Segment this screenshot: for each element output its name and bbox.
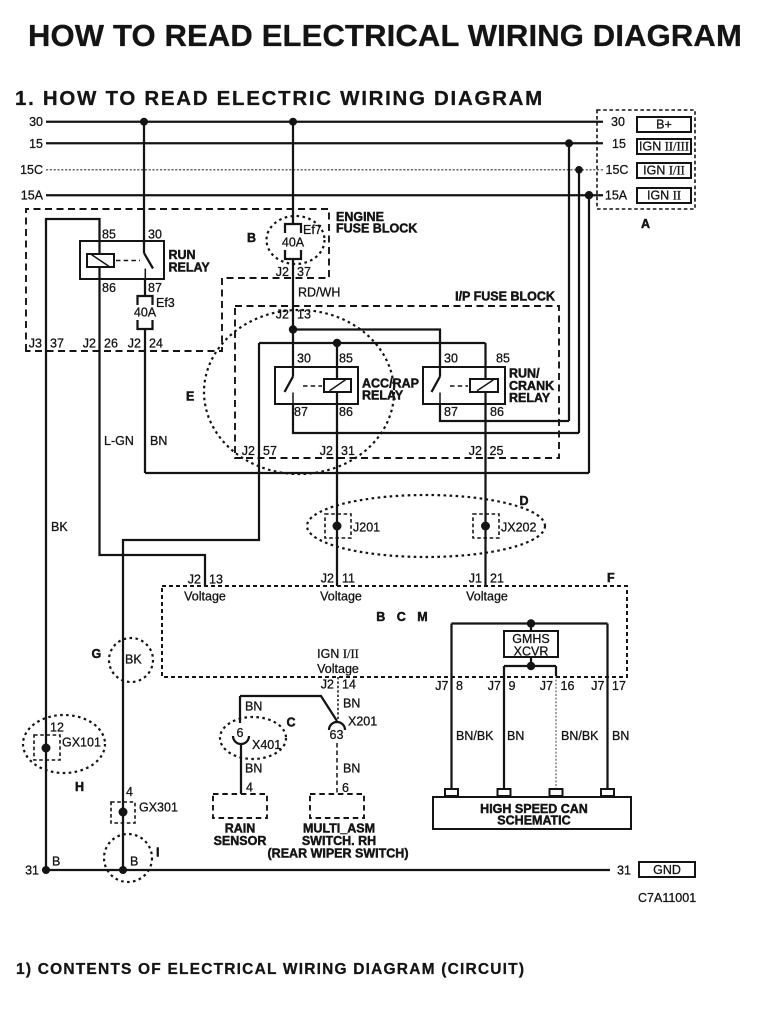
node: junction dot bus15C <box>575 166 583 174</box>
svg-text:J7: J7 <box>488 679 501 693</box>
svg-text:40A: 40A <box>282 236 305 250</box>
svg-text:13: 13 <box>297 308 311 322</box>
svg-text:G: G <box>92 647 102 661</box>
svg-text:IGN I/II: IGN I/II <box>643 164 685 178</box>
relay K2 pin87 stub <box>292 393 294 405</box>
svg-text:HOW TO READ ELECTRICAL WIRING: HOW TO READ ELECTRICAL WIRING DIAGRAM <box>28 18 742 53</box>
svg-text:IGN I/II: IGN I/II <box>317 647 359 661</box>
node: junction dot GX301 bus31 <box>119 866 127 874</box>
svg-text:26: 26 <box>104 337 118 351</box>
svg-text:J2: J2 <box>276 308 289 322</box>
svg-text:40A: 40A <box>134 306 157 320</box>
fuse Ef7 (brackets) <box>285 224 301 259</box>
relay K1 RUN RELAY box <box>80 241 164 279</box>
svg-text:BN: BN <box>507 729 524 743</box>
wire: J7|8 CAN line <box>450 624 452 790</box>
svg-text:63: 63 <box>330 728 344 742</box>
svg-text:BK: BK <box>51 520 68 534</box>
node: junction dot GMHS top <box>527 619 535 627</box>
svg-text:Voltage: Voltage <box>466 590 508 604</box>
wire: J7|17 CAN line <box>606 624 608 790</box>
svg-text:21: 21 <box>490 572 504 586</box>
svg-text:J2: J2 <box>83 337 96 351</box>
node: junction dot J2|13 branch <box>289 325 297 333</box>
svg-text:57: 57 <box>263 444 277 458</box>
ellipse D around splices <box>307 495 545 557</box>
svg-text:GND: GND <box>653 863 681 877</box>
box A dashed outline <box>597 110 695 209</box>
svg-text:X201: X201 <box>348 715 377 729</box>
svg-text:6: 6 <box>237 726 244 740</box>
circle G around BK wire <box>109 638 153 682</box>
wire: 15C vertical from bus <box>578 170 580 433</box>
svg-text:XCVR: XCVR <box>514 645 549 659</box>
engine fuse block dashed outline <box>26 209 329 351</box>
svg-text:85: 85 <box>496 352 510 366</box>
multi asm switch dashed box <box>310 794 364 818</box>
svg-text:85: 85 <box>102 228 116 242</box>
box A IGN I/II cell <box>637 163 691 178</box>
circle B around Ef7 <box>267 216 325 264</box>
svg-text:J2: J2 <box>320 444 333 458</box>
node: GX101 dot <box>42 744 51 753</box>
node: junction dot bus30 x293 <box>289 118 297 126</box>
svg-text:A: A <box>641 217 650 231</box>
svg-text:H: H <box>75 780 84 794</box>
node: junction dot bus15A <box>585 191 593 199</box>
wire: 15A vertical from bus <box>588 195 590 473</box>
wire: RUN/CRANK coil pin86 down through J2|25 and JX202 to BCM J1|21 <box>484 392 486 586</box>
relay K1 switch blade <box>144 253 153 269</box>
svg-text:BN: BN <box>245 700 262 714</box>
wire: J7|16 CAN line dotted <box>555 676 557 789</box>
svg-text:J7: J7 <box>540 679 553 693</box>
svg-text:86: 86 <box>490 405 504 419</box>
CAN connector tab 3 <box>550 789 563 796</box>
ellipse E around ACC/RAP relay <box>204 310 394 474</box>
wire: 15 vertical from bus <box>568 143 570 421</box>
svg-text:Voltage: Voltage <box>320 590 362 604</box>
node: junction dot GMHS bottom <box>527 662 535 670</box>
ground GX101 dashed square <box>34 735 60 760</box>
wire: RUN relay pin87 to fuse Ef3 <box>144 279 146 296</box>
svg-text:I: I <box>156 846 159 860</box>
connector X201 arc <box>329 722 345 730</box>
bus 15C (thin dotted) <box>46 169 603 171</box>
relay K1 dashed link <box>116 260 140 262</box>
relay K1 pin87 stub <box>144 269 146 280</box>
wire: GMHS feed rail inside BCM <box>452 622 608 624</box>
splice J201 dashed square <box>325 514 351 538</box>
svg-text:86: 86 <box>339 405 353 419</box>
svg-text:E: E <box>186 390 194 404</box>
CAN connector tab 2 <box>498 789 511 796</box>
svg-text:B+: B+ <box>656 118 672 132</box>
svg-text:SCHEMATIC: SCHEMATIC <box>497 814 570 828</box>
svg-text:X401: X401 <box>252 738 281 752</box>
svg-text:14: 14 <box>342 678 356 692</box>
svg-text:B: B <box>52 855 60 869</box>
bus 15A <box>46 194 603 196</box>
wire: GMHS bottom stub <box>530 657 532 666</box>
BCM dashed outline F <box>162 586 627 677</box>
svg-text:RELAY: RELAY <box>169 261 211 275</box>
fuse Ef3 (brackets) <box>138 296 153 329</box>
svg-text:11: 11 <box>342 572 355 586</box>
HIGH SPEED CAN box <box>433 797 631 829</box>
svg-text:J2: J2 <box>321 678 334 692</box>
svg-text:1. HOW TO READ ELECTRIC WIRING: 1. HOW TO READ ELECTRIC WIRING DIAGRAM <box>15 87 544 110</box>
wire L-GN: RUN relay pin86 down, right, down to BCM J2|13 <box>100 279 206 586</box>
wire: X201 to multi switch pin 6 (dotted) <box>336 743 338 794</box>
svg-text:4: 4 <box>246 781 253 795</box>
relay K3 dashed link <box>450 385 468 387</box>
svg-text:31: 31 <box>25 864 39 878</box>
svg-text:25: 25 <box>490 444 504 458</box>
svg-text:9: 9 <box>509 679 516 693</box>
svg-text:GX101: GX101 <box>62 736 101 750</box>
svg-text:J2: J2 <box>276 265 289 279</box>
svg-text:15: 15 <box>612 137 626 151</box>
relay K2 dashed link <box>303 385 322 387</box>
svg-text:16: 16 <box>561 679 575 693</box>
wire: GMHS lower rail <box>504 665 556 667</box>
svg-text:IGN II/III: IGN II/III <box>639 140 689 154</box>
svg-text:30: 30 <box>611 115 625 129</box>
svg-text:17: 17 <box>612 679 626 693</box>
svg-text:1) CONTENTS OF ELECTRICAL WIRI: 1) CONTENTS OF ELECTRICAL WIRING DIAGRAM… <box>16 961 525 978</box>
ground GX301 dashed square <box>111 802 135 823</box>
wire: bus30 to fuse Ef7 <box>292 122 294 224</box>
svg-text:J2: J2 <box>128 337 141 351</box>
CAN connector tab 4 <box>601 789 614 796</box>
wire: X401 branch down <box>239 696 241 723</box>
CAN connector tab 1 <box>445 789 458 796</box>
relay K3 RUN/CRANK box <box>423 367 505 404</box>
svg-text:BK: BK <box>125 653 142 667</box>
ellipse H around GX101 <box>23 715 105 773</box>
relay K3 pin87 stub <box>439 393 441 405</box>
bus 30 <box>46 121 603 123</box>
wire: branch to RUN/CRANK relay pin30 <box>293 330 440 377</box>
svg-text:30: 30 <box>444 352 458 366</box>
svg-text:J3: J3 <box>29 337 42 351</box>
svg-text:15C: 15C <box>20 163 43 177</box>
svg-text:GX301: GX301 <box>139 801 178 815</box>
svg-text:85: 85 <box>339 352 353 366</box>
svg-text:J2: J2 <box>321 572 334 586</box>
relay K3 switch blade <box>432 377 441 393</box>
svg-text:C7A11001: C7A11001 <box>638 891 696 905</box>
wire: J7|9 CAN line <box>503 666 505 789</box>
wire: ACC/RAP coil pin86 down through J2|31 and J201 to BCM J2|11 <box>336 392 338 586</box>
svg-text:BN/BK: BN/BK <box>456 729 494 743</box>
relay K2 switch blade <box>285 377 294 393</box>
svg-text:8: 8 <box>456 679 463 693</box>
box A IGN II/III cell <box>637 139 691 154</box>
box A B+ cell <box>637 117 691 132</box>
svg-text:BN: BN <box>612 729 629 743</box>
svg-text:BN: BN <box>343 762 360 776</box>
wire: branch rain sensor / X201 <box>240 696 337 721</box>
svg-text:I/P FUSE BLOCK: I/P FUSE BLOCK <box>455 290 555 304</box>
wire: ACC/RAP pin87 down and right to 15C <box>293 404 579 433</box>
svg-text:30: 30 <box>148 228 162 242</box>
svg-text:B: B <box>130 855 138 869</box>
wire: BCM J2|14 down to X201 (dotted) <box>337 677 339 721</box>
node: junction dot coil rail / ACC coil <box>333 339 341 347</box>
wire BN: fuse Ef3 down to 15A rail <box>144 329 146 473</box>
svg-text:4: 4 <box>126 785 133 799</box>
svg-text:J2: J2 <box>188 573 201 587</box>
svg-text:30: 30 <box>297 352 311 366</box>
wire BK: RUN relay pin85 up, left, down left margin to bus 31 <box>46 219 100 870</box>
GMHS XCVR box U1 <box>504 631 558 657</box>
svg-text:J7: J7 <box>591 679 604 693</box>
svg-text:C: C <box>287 716 296 730</box>
svg-text:87: 87 <box>294 405 308 419</box>
svg-text:15C: 15C <box>606 163 629 177</box>
wire: GMHS box drop <box>530 624 532 632</box>
svg-text:RELAY: RELAY <box>509 391 551 405</box>
svg-text:31: 31 <box>341 444 355 458</box>
svg-text:D: D <box>520 494 529 508</box>
svg-text:RD/WH: RD/WH <box>298 286 340 300</box>
rain sensor dashed box <box>213 794 267 818</box>
relay K2 ACC/RAP box <box>275 367 358 404</box>
wire: bus30 to RUN relay pin30 <box>143 122 145 253</box>
svg-text:30: 30 <box>29 115 43 129</box>
svg-text:BN: BN <box>245 762 262 776</box>
svg-text:87: 87 <box>148 281 162 295</box>
svg-text:J201: J201 <box>353 521 380 535</box>
wire: RUN relay coil pins (85 top / 86 bottom inside box) <box>98 241 100 279</box>
wire: X401 to rain sensor pin 4 <box>240 744 242 794</box>
svg-text:FUSE BLOCK: FUSE BLOCK <box>336 222 417 236</box>
svg-text:BN: BN <box>343 697 360 711</box>
node: junction dot bus30 x144 <box>140 118 148 126</box>
svg-text:B: B <box>247 231 256 245</box>
node: junction dot BK/bus31 <box>42 866 50 874</box>
relay K2 coil <box>324 379 351 392</box>
svg-text:24: 24 <box>149 337 163 351</box>
node: junction dot JX202 <box>481 522 490 531</box>
wire: coil rail down to J2|57 and ground path via G <box>123 343 259 870</box>
svg-text:BN/BK: BN/BK <box>561 729 599 743</box>
svg-text:13: 13 <box>209 573 223 587</box>
svg-text:Ef3: Ef3 <box>156 296 175 310</box>
svg-text:12: 12 <box>50 721 64 735</box>
svg-text:15: 15 <box>29 137 43 151</box>
wire: RUN/CRANK pin87 down and right to 15 <box>440 404 569 421</box>
node: junction dot J201 <box>333 522 342 531</box>
svg-text:Ef7: Ef7 <box>303 223 322 237</box>
svg-text:L-GN: L-GN <box>104 434 134 448</box>
svg-text:86: 86 <box>102 281 116 295</box>
svg-text:SENSOR: SENSOR <box>214 834 267 848</box>
splice JX202 dashed square <box>473 514 499 538</box>
circle I around bus31 junction <box>104 834 152 882</box>
svg-text:J1: J1 <box>469 572 482 586</box>
svg-text:31: 31 <box>617 864 631 878</box>
svg-text:F: F <box>607 571 615 585</box>
wire: ACC/RAP coil pin85 from rail <box>336 343 338 379</box>
bus 15 <box>46 142 603 144</box>
svg-text:J2: J2 <box>242 444 255 458</box>
svg-text:J7: J7 <box>435 679 448 693</box>
box A IGN II cell <box>637 188 691 203</box>
wire: J7|16 CAN line upper <box>555 666 557 676</box>
wire: RUN/CRANK coil pin85 from rail <box>484 343 486 379</box>
svg-text:37: 37 <box>50 337 64 351</box>
svg-text:15A: 15A <box>605 189 628 203</box>
connector X401 arc <box>233 736 249 744</box>
svg-text:Voltage: Voltage <box>184 590 226 604</box>
relay K1 coil <box>87 254 114 267</box>
relay K3 coil <box>470 379 498 392</box>
wire RD/WH: fuse Ef7 down through J2|37 and J2|13 <box>292 259 294 377</box>
svg-text:87: 87 <box>444 405 458 419</box>
svg-text:RELAY: RELAY <box>362 389 404 403</box>
I/P fuse block dashed outline <box>235 306 559 458</box>
node: junction dot bus15 <box>565 139 573 147</box>
svg-text:15A: 15A <box>21 189 44 203</box>
svg-text:6: 6 <box>342 781 349 795</box>
node: GX301 dot <box>119 808 128 817</box>
svg-text:37: 37 <box>297 265 311 279</box>
svg-text:(REAR WIPER SWITCH): (REAR WIPER SWITCH) <box>268 847 409 861</box>
svg-text:Voltage: Voltage <box>317 662 359 676</box>
GND box <box>639 862 695 877</box>
svg-text:IGN II: IGN II <box>647 189 681 203</box>
ellipse C around X401 <box>220 717 286 759</box>
bus 31 ground <box>42 869 610 871</box>
svg-text:BN: BN <box>150 434 167 448</box>
svg-text:JX202: JX202 <box>501 521 536 535</box>
wire: relay coil feed rail y343 <box>259 342 486 344</box>
wire: 15A feed horizontal <box>145 472 589 474</box>
svg-text:J2: J2 <box>469 444 482 458</box>
svg-text:B C M: B C M <box>376 610 431 624</box>
